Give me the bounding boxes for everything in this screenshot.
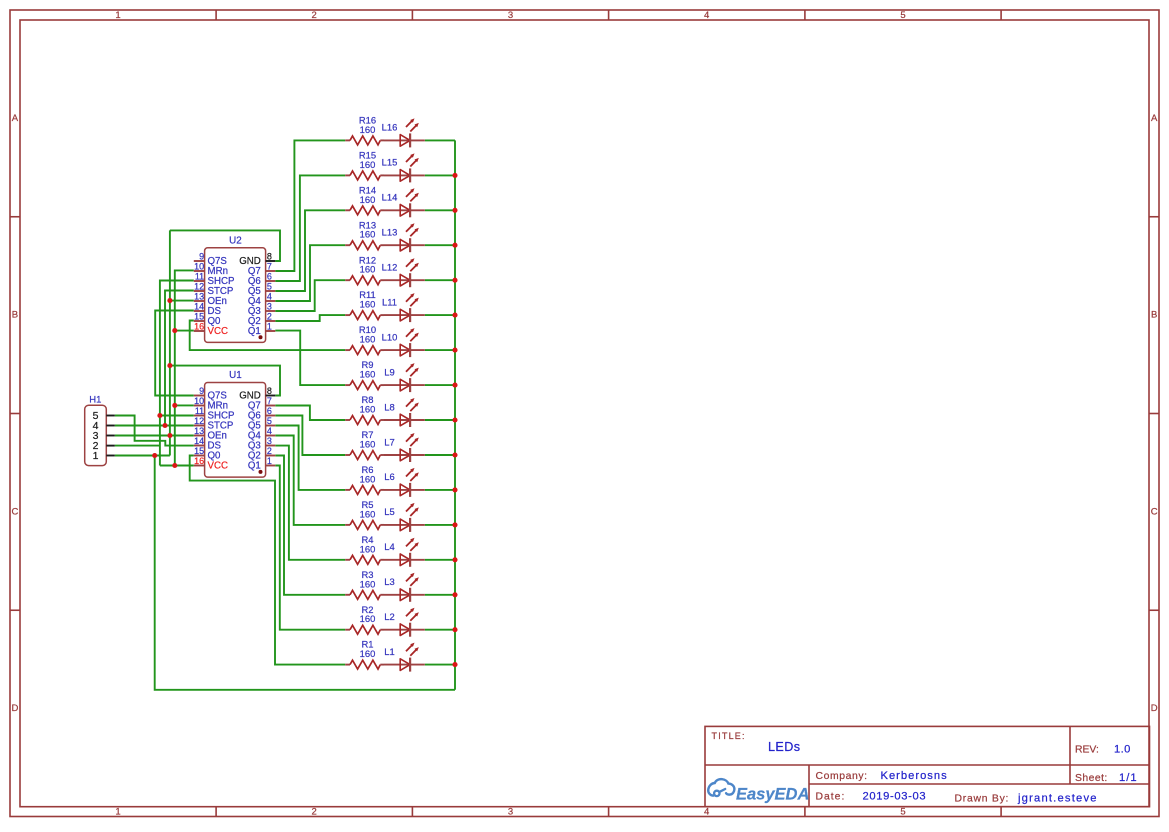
LED L8 [384,398,425,427]
wire U1 GND pin loop over top of U1 [170,366,280,396]
svg-text:7: 7 [267,261,272,271]
svg-text:L7: L7 [384,436,394,447]
svg-text:5: 5 [267,416,272,426]
junction node bus row L15 [452,173,457,178]
svg-text:160: 160 [360,404,376,415]
svg-text:3: 3 [508,10,513,21]
connector H1 5-pin header [85,394,115,465]
title block [705,726,1150,806]
svg-text:5: 5 [267,281,272,291]
svg-text:160: 160 [360,299,376,310]
LED L14 [382,188,425,217]
svg-text:160: 160 [360,229,376,240]
wire LED cathode bus x=455 [454,140,456,689]
wire GND vertical rail x=170 [169,230,171,455]
resistor R8 160 [345,394,384,424]
wire U1 Q7 to R8 [275,406,345,421]
wire SHCP vertical rail x=160 [160,281,194,466]
wire U2 Q2 to R11 [275,315,345,321]
wire U2 GND pin loop over top of U2 [170,230,280,261]
svg-text:2: 2 [267,446,272,456]
svg-text:TITLE:: TITLE: [712,731,746,741]
wire U2 Q1 to R9 [275,331,345,386]
resistor R1 160 [345,639,384,669]
svg-text:160: 160 [360,124,376,135]
svg-text:6: 6 [267,271,272,281]
resistor R7 160 [345,429,384,459]
svg-text:12: 12 [194,281,204,291]
svg-text:L5: L5 [384,506,394,517]
wire L16 cathode to bus [425,139,455,141]
svg-text:1: 1 [115,806,120,817]
wire U1 Q0 to R1 [190,456,346,665]
svg-text:L16: L16 [382,122,398,133]
svg-text:1: 1 [267,456,272,466]
svg-text:A: A [12,113,19,124]
svg-text:D: D [11,703,18,714]
junction node bus row L10 [452,348,457,353]
svg-text:L12: L12 [382,262,398,273]
LED L3 [384,573,425,602]
svg-text:160: 160 [360,613,376,624]
svg-text:H1: H1 [89,394,101,405]
junction node bus row L8 [452,417,457,422]
svg-text:REV:: REV: [1075,745,1099,756]
svg-text:10: 10 [194,396,204,406]
resistor R10 160 [345,324,384,354]
wire VCC vertical rail x=175 with U2 MRn branch [175,270,194,465]
junction node bus row L11 [452,313,457,318]
svg-text:16: 16 [194,456,204,466]
svg-text:3: 3 [508,806,513,817]
junction node bus row L12 [452,278,457,283]
junction node bus row L13 [452,243,457,248]
wire cathode return to bottom rail [155,456,455,690]
svg-text:C: C [11,506,18,517]
wire U2 Q7 to R16 [275,140,345,271]
svg-text:VCC: VCC [208,460,228,471]
junction node bus row L5 [452,522,457,527]
svg-text:6: 6 [267,406,272,416]
svg-text:L3: L3 [384,576,394,587]
wire L2 cathode to bus [425,629,455,631]
svg-text:14: 14 [194,301,204,311]
wire U2 VCC branch [175,330,194,332]
svg-text:4: 4 [267,291,272,301]
svg-text:Drawn By:: Drawn By: [955,794,1010,805]
wire L13 cathode to bus [425,244,455,246]
wire U1 Q1 to R2 [275,466,345,630]
wire L12 cathode to bus [425,279,455,281]
wire L9 cathode to bus [425,384,455,386]
LED L13 [382,223,425,252]
LED L2 [384,608,425,637]
wire H1 pin3 to U1 OEn row [115,435,194,437]
svg-text:LEDs: LEDs [768,740,800,754]
svg-text:1: 1 [267,321,272,331]
wire L4 cathode to bus [425,559,455,561]
IC U1 74HC595 shift register [194,370,275,477]
svg-text:5: 5 [900,806,905,817]
svg-text:160: 160 [360,334,376,345]
wire H1 pin2 row [115,445,160,447]
svg-text:1: 1 [115,10,120,21]
wire U2 Q3 to R12 [275,280,345,311]
wire H1 pin1 row [115,455,170,457]
svg-text:1/1: 1/1 [1119,772,1138,784]
junction node SHCP [157,413,162,418]
svg-text:D: D [1151,703,1158,714]
wire L6 cathode to bus [425,489,455,491]
EasyEDA logo [708,779,809,803]
svg-text:Sheet:: Sheet: [1075,773,1108,784]
svg-text:160: 160 [360,508,376,519]
resistor R11 160 [345,289,384,319]
junction node bus row L6 [452,487,457,492]
svg-text:10: 10 [194,261,204,271]
svg-text:C: C [1151,506,1158,517]
svg-text:VCC: VCC [208,326,228,337]
LED L10 [382,328,425,357]
junction node bus row L2 [452,627,457,632]
svg-text:1.0: 1.0 [1114,744,1131,756]
wire U1 Q7S to U2 DS chain [155,311,194,396]
LED L9 [384,363,425,392]
svg-text:8: 8 [267,386,272,396]
svg-text:160: 160 [360,159,376,170]
junction node U2 OEn [167,298,172,303]
svg-text:L8: L8 [384,401,394,412]
svg-text:15: 15 [194,311,204,321]
svg-text:B: B [12,310,18,321]
resistor R2 160 [345,604,384,634]
LED L1 [384,643,425,672]
junction node U2 VCC [172,328,177,333]
junction node U1 MRn [172,403,177,408]
LED L6 [384,468,425,497]
svg-text:L14: L14 [382,192,398,203]
svg-text:B: B [1151,310,1157,321]
wire L14 cathode to bus [425,209,455,211]
wire L1 cathode to bus [425,664,455,666]
junction node STCP [162,423,167,428]
wire L15 cathode to bus [425,174,455,176]
LED L15 [382,153,425,182]
wire U2 Q5 to R14 [275,210,345,291]
wire U2 Q0 to R10 [190,321,346,351]
svg-text:L15: L15 [382,157,398,168]
wire U1 Q5 to R6 [275,426,345,490]
svg-text:160: 160 [360,264,376,275]
wire U1 MRn branch [175,404,194,406]
svg-text:5: 5 [900,10,905,21]
svg-text:160: 160 [360,439,376,450]
LED L12 [382,258,425,287]
LED L7 [384,433,425,462]
svg-text:U2: U2 [229,236,242,247]
svg-text:Q1: Q1 [248,460,261,471]
svg-text:11: 11 [195,271,204,281]
svg-text:L2: L2 [384,611,394,622]
svg-text:Company:: Company: [816,771,868,782]
svg-text:4: 4 [704,806,709,817]
svg-text:2: 2 [312,10,317,21]
wire STCP vertical rail x=165 [165,291,194,426]
wire U1 Q2 to R3 [275,456,345,595]
junction node bus row L3 [452,592,457,597]
resistor R3 160 [345,569,384,599]
svg-text:13: 13 [194,426,204,436]
junction node OEn row [167,433,172,438]
LED L11 [382,293,425,322]
wire L8 cathode to bus [425,419,455,421]
wire L3 cathode to bus [425,594,455,596]
svg-text:Date:: Date: [816,792,846,803]
svg-text:13: 13 [194,291,204,301]
resistor R16 160 [345,115,384,145]
wire U1 Q3 to R4 [275,446,345,560]
wire L10 cathode to bus [425,349,455,351]
svg-text:A: A [1151,113,1158,124]
svg-text:7: 7 [267,396,272,406]
svg-text:160: 160 [360,473,376,484]
wire U1 VCC row [160,465,194,467]
junction node bus row L14 [452,208,457,213]
svg-text:15: 15 [194,446,204,456]
LED L4 [384,538,425,567]
wire L11 cathode to bus [425,314,455,316]
wire L5 cathode to bus [425,524,455,526]
junction node bus row L1 [452,662,457,667]
svg-text:2019-03-03: 2019-03-03 [863,791,927,803]
svg-text:L13: L13 [382,227,398,238]
svg-text:L4: L4 [384,541,394,552]
svg-text:EasyEDA: EasyEDA [736,786,809,804]
svg-text:8: 8 [267,251,272,261]
junction node cathode return [152,453,157,458]
svg-text:160: 160 [360,369,376,380]
resistor R15 160 [345,150,384,180]
svg-text:3: 3 [267,436,272,446]
svg-text:160: 160 [360,648,376,659]
IC U2 74HC595 shift register [194,236,275,343]
svg-text:1: 1 [93,450,99,462]
wire U2 Q4 to R13 [275,245,345,301]
svg-text:L6: L6 [384,471,394,482]
svg-text:160: 160 [360,194,376,205]
junction node bus row L7 [452,452,457,457]
svg-text:L11: L11 [382,296,397,307]
svg-text:9: 9 [199,386,204,396]
LED L5 [384,503,425,532]
svg-text:14: 14 [194,436,204,446]
svg-text:16: 16 [194,321,204,331]
junction node bus row L9 [452,383,457,388]
LED L16 [382,118,425,147]
svg-text:12: 12 [194,416,204,426]
resistor R9 160 [345,359,384,389]
svg-text:9: 9 [199,251,204,261]
svg-text:jgrant.esteve: jgrant.esteve [1017,793,1098,805]
wire H1 pin5 to U1 DS route [115,416,194,446]
wire U2 OEn to GND rail [170,300,194,302]
resistor R6 160 [345,464,384,494]
resistor R4 160 [345,534,384,564]
wire U2 Q6 to R15 [275,175,345,281]
wire U1 Q6 to R7 [275,416,345,456]
svg-text:160: 160 [360,578,376,589]
svg-text:L9: L9 [384,366,394,377]
svg-text:L1: L1 [384,646,394,657]
svg-text:4: 4 [267,426,272,436]
wire U1 SHCP branch [160,415,194,417]
svg-text:Kerberosns: Kerberosns [881,770,948,782]
svg-text:2: 2 [312,806,317,817]
svg-text:3: 3 [267,301,272,311]
svg-text:L10: L10 [382,331,398,342]
wire U1 Q4 to R5 [275,436,345,525]
svg-text:160: 160 [360,543,376,554]
junction node U1 GND [167,363,172,368]
wire L7 cathode to bus [425,454,455,456]
wire H1 pin4 to U1 STCP row [115,425,194,427]
resistor R5 160 [345,499,384,529]
resistor R12 160 [345,254,384,284]
svg-text:U1: U1 [229,370,242,381]
resistor R13 160 [345,219,384,249]
svg-text:Q1: Q1 [248,326,261,337]
resistor R14 160 [345,184,384,214]
svg-text:4: 4 [704,10,709,21]
junction node U1 VCC [172,463,177,468]
svg-text:11: 11 [195,406,204,416]
svg-text:2: 2 [267,311,272,321]
junction node bus row L4 [452,557,457,562]
